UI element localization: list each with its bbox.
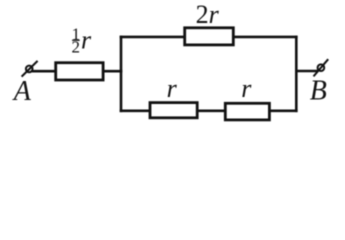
wire bottom right — [269, 110, 298, 113]
svg-text:r: r — [241, 74, 252, 103]
wire top left — [120, 36, 185, 39]
svg-text:B: B — [310, 76, 327, 107]
svg-text:r: r — [167, 74, 178, 103]
resistor R1 value 1/2 r — [56, 63, 103, 80]
svg-text:2r: 2r — [196, 0, 220, 29]
svg-text:r: r — [81, 26, 92, 55]
wire right vertical — [295, 36, 298, 113]
wire top right — [233, 36, 297, 39]
wire — [103, 70, 122, 73]
wire to terminal B — [295, 70, 318, 73]
wire — [32, 70, 56, 73]
terminal B — [314, 59, 329, 76]
terminal A — [22, 61, 38, 77]
label 1/2 r fraction — [71, 24, 92, 56]
svg-text:A: A — [12, 76, 32, 107]
wire between R3 and R4 — [197, 110, 227, 113]
wire left vertical — [120, 36, 123, 113]
resistor R3 value r — [150, 103, 197, 118]
svg-text:2: 2 — [71, 37, 80, 56]
resistor R4 value r — [225, 103, 269, 120]
wire bottom left — [120, 110, 151, 113]
resistor R2 value 2r — [185, 28, 234, 45]
